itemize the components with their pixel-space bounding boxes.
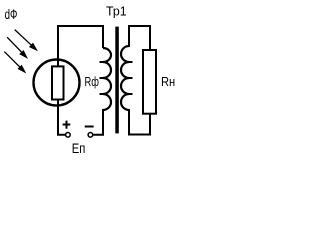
wire: - terminal to transformer primary bottom [93,109,103,135]
svg-text:Rф: Rф [85,74,100,89]
svg-text:Еп: Еп [72,140,86,156]
wire: secondary top to resistor Rн top [129,26,150,49]
- terminal circle [88,133,93,138]
wire: photoresistor bottom to + terminal [58,104,65,135]
wire: lead inside circle top [57,58,59,66]
light arrow 1 [15,30,38,52]
photoresistor Rф: circle [34,60,80,106]
svg-text:Тр1: Тр1 [106,3,127,18]
resistor Rн body [143,50,156,114]
wire: lead inside circle bottom [57,100,59,106]
svg-text:dФ: dФ [5,6,18,22]
photoresistor Rф: resistor body [52,66,64,99]
transformer Tp1 primary winding [100,48,112,110]
transformer Tp1 secondary winding [121,46,133,110]
plus sign [63,121,71,129]
wire: secondary bottom to resistor Rн bottom [129,109,150,135]
minus sign [85,126,94,128]
svg-text:Rн: Rн [161,74,175,89]
wire: photoresistor top to transformer primary top [58,26,103,60]
transformer core [115,27,119,134]
+ terminal circle [66,133,71,138]
light arrow 3 [4,52,26,74]
light arrow 2 [7,37,28,59]
